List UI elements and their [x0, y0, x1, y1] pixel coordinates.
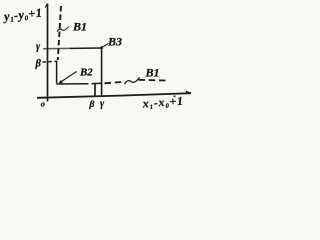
svg-text:o: o: [41, 99, 45, 109]
squiggle leader to right B1: [125, 77, 140, 84]
svg-text:β: β: [35, 59, 42, 70]
squiggle leader to left B1: [57, 27, 69, 32]
leader arrow to B3 top edge: [101, 44, 109, 49]
x-axis arrowhead: [186, 92, 191, 94]
svg-text:β: β: [88, 99, 94, 110]
beta tick on x-axis (vertical segment): [94, 83, 96, 97]
svg-text:B1: B1: [72, 20, 87, 34]
beta-level dashed segment: [43, 60, 58, 63]
gamma-level line (top edge of B3 rectangle): [43, 47, 70, 49]
y-axis arrowhead: [45, 4, 47, 8]
svg-text:B1: B1: [145, 66, 160, 80]
leader arrow to B2 corner: [60, 72, 77, 83]
stray ink dot on axis: [173, 95, 176, 97]
svg-text:B3: B3: [107, 35, 122, 49]
arrowhead of B2 leader: [59, 80, 63, 83]
paper background: [0, 0, 199, 120]
svg-text:B2: B2: [79, 66, 93, 78]
x-axis: [37, 93, 191, 98]
right edge of B3 rectangle: [101, 48, 103, 97]
L-shaped boundary of B2: vertical part: [56, 61, 58, 84]
y-axis: [47, 4, 49, 102]
arrowhead of B3 leader: [100, 46, 103, 49]
dashed horizontal line B1 (right): [105, 80, 166, 84]
dashed vertical line B1 (left boundary): [58, 6, 61, 60]
L-shaped boundary of B2: horizontal part: [57, 82, 101, 85]
